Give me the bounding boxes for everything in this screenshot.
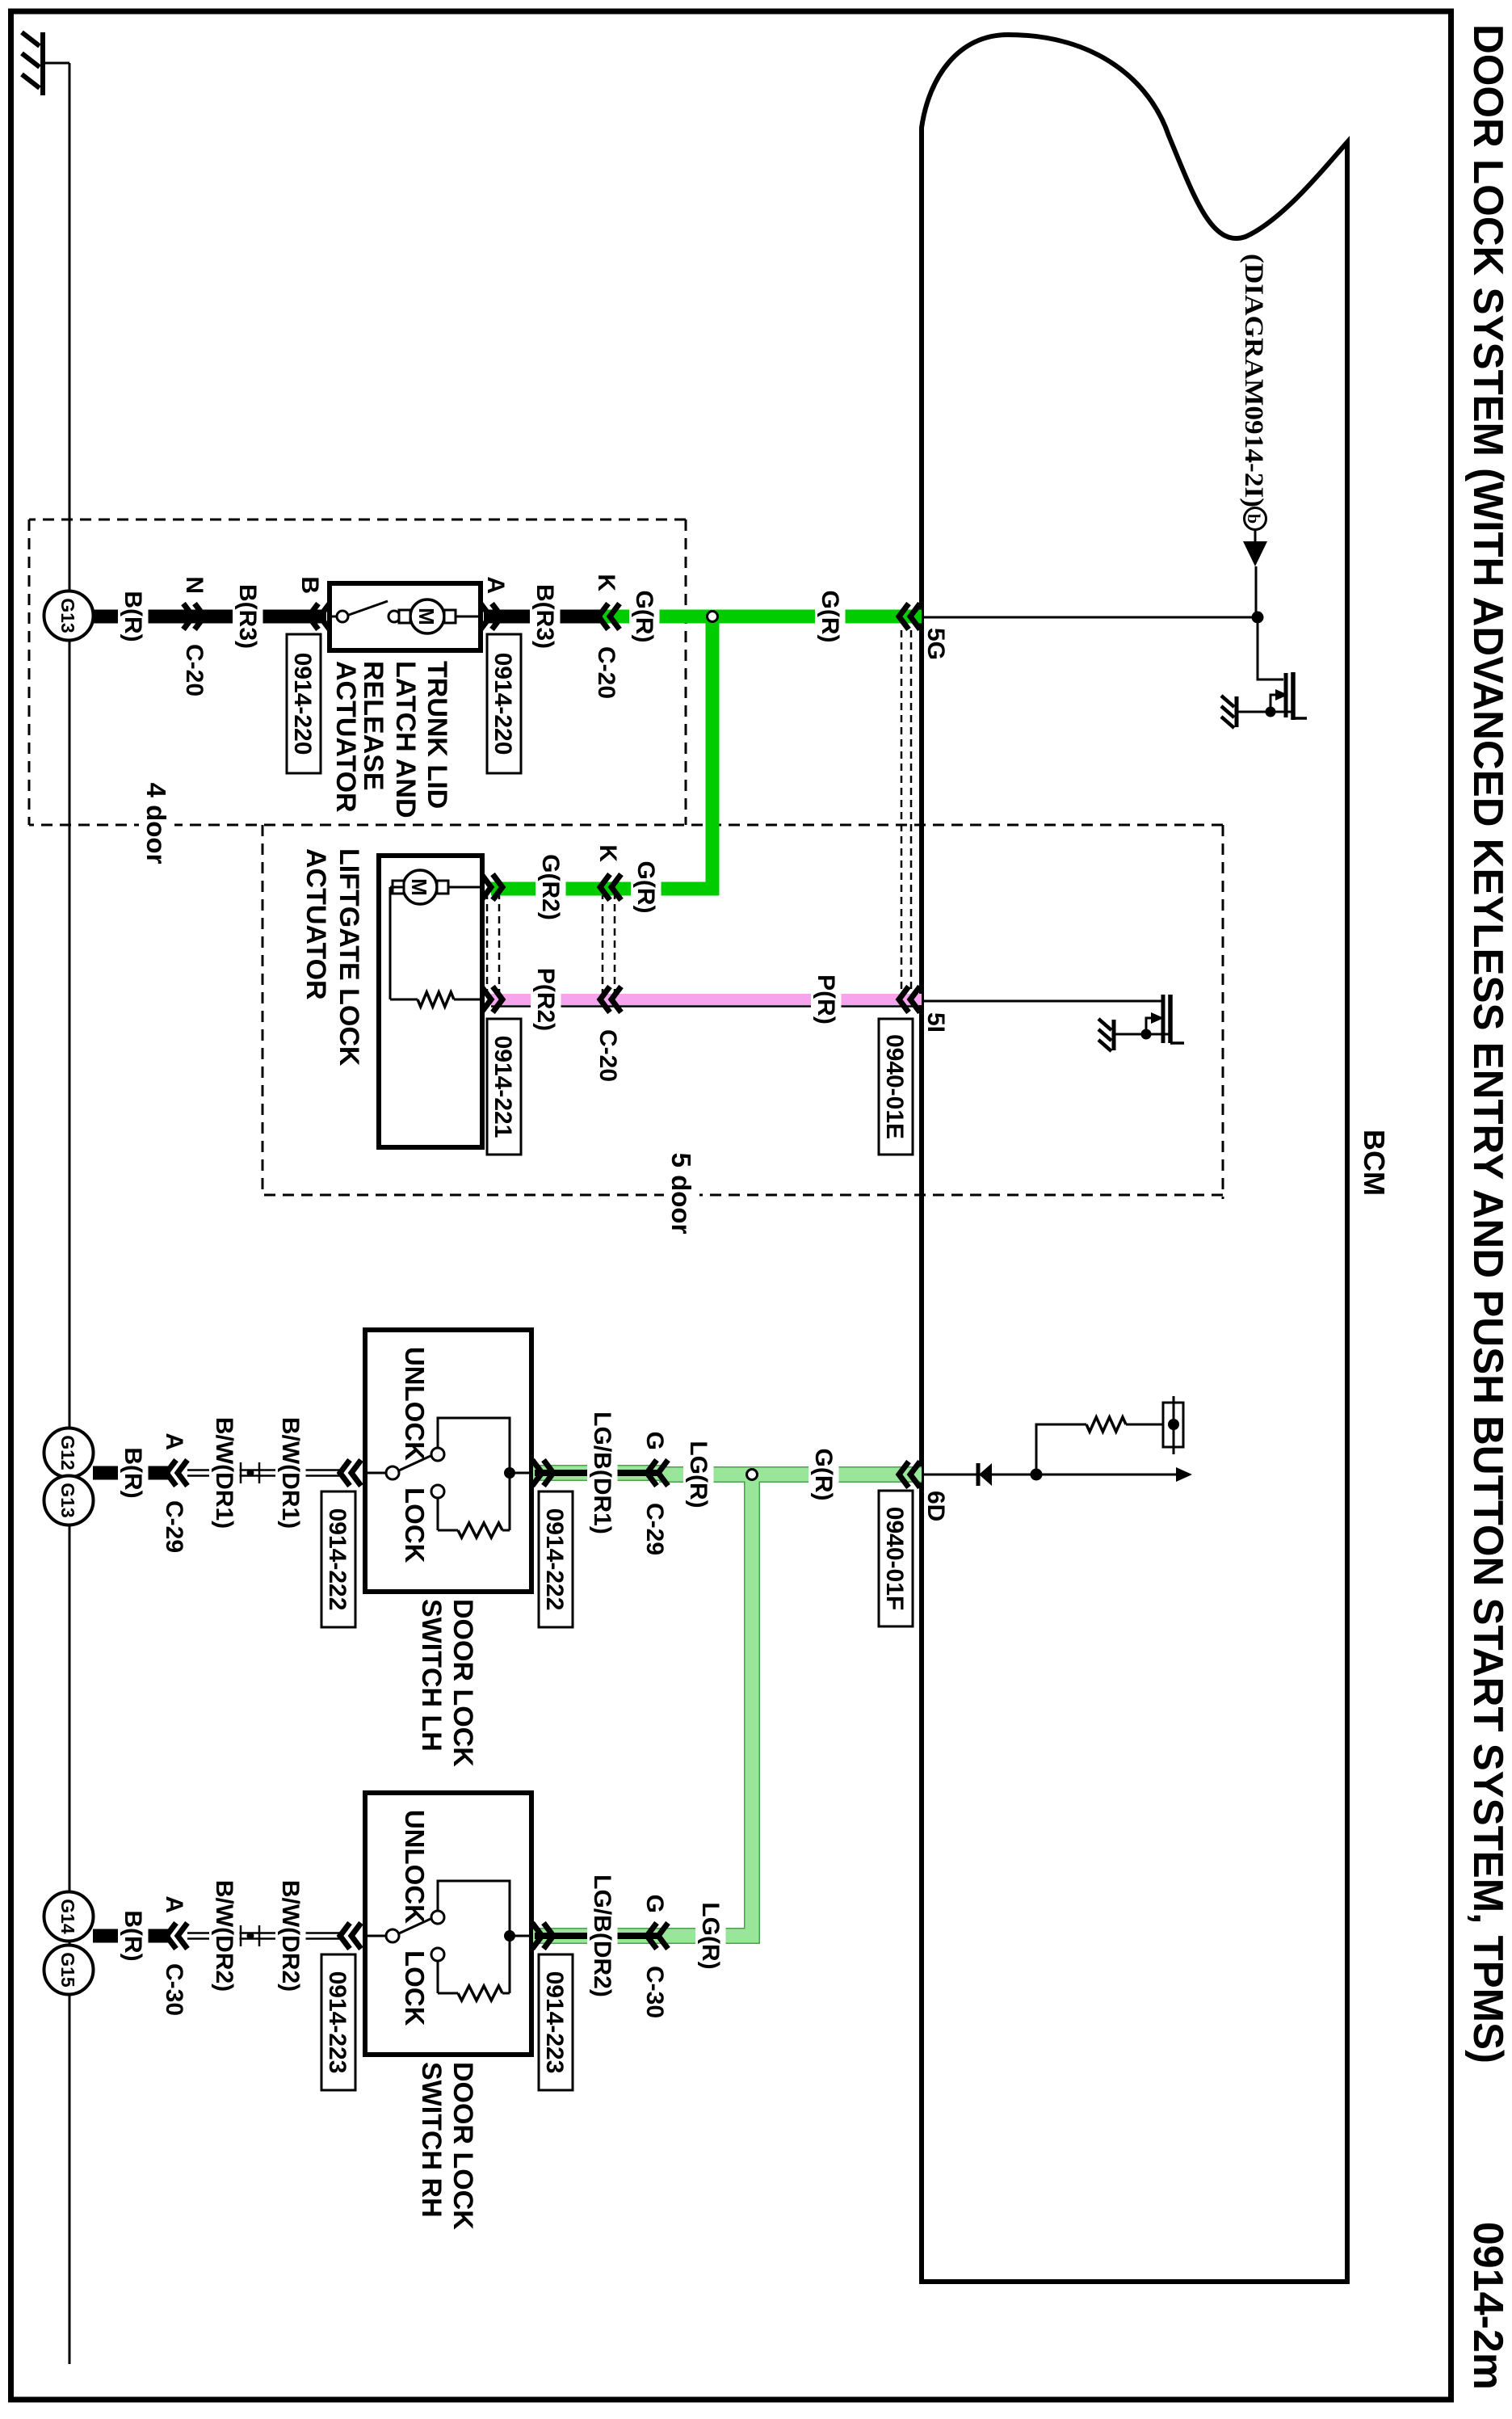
svg-text:0914-220: 0914-220 <box>489 653 516 755</box>
svg-text:G(R): G(R) <box>817 591 843 643</box>
svg-text:A: A <box>161 1895 187 1913</box>
svg-text:C-20: C-20 <box>181 644 208 696</box>
svg-text:0914-222: 0914-222 <box>541 1508 568 1611</box>
svg-text:6D: 6D <box>922 1491 949 1521</box>
svg-text:K: K <box>594 844 621 862</box>
svg-text:B(R): B(R) <box>120 591 146 642</box>
svg-text:DOOR LOCK: DOOR LOCK <box>447 2062 478 2230</box>
svg-text:B/W(DR2): B/W(DR2) <box>277 1880 304 1992</box>
svg-text:0914-222: 0914-222 <box>324 1508 351 1611</box>
svg-text:G(R2): G(R2) <box>537 854 564 920</box>
svg-text:LOCK: LOCK <box>400 1950 430 2026</box>
svg-text:SWITCH LH: SWITCH LH <box>416 1599 447 1752</box>
svg-text:(DIAGRAM0914-2I): (DIAGRAM0914-2I) <box>1239 254 1268 507</box>
svg-text:0914-221: 0914-221 <box>489 1036 516 1138</box>
svg-text:UNLOCK: UNLOCK <box>400 1810 430 1924</box>
svg-text:G: G <box>641 1432 668 1450</box>
svg-text:ACTUATOR: ACTUATOR <box>300 848 331 1000</box>
svg-text:LOCK: LOCK <box>400 1487 430 1563</box>
svg-text:LATCH AND: LATCH AND <box>390 661 421 818</box>
svg-text:N: N <box>181 576 208 594</box>
svg-text:G(R): G(R) <box>632 861 659 914</box>
svg-text:RELEASE: RELEASE <box>358 661 388 791</box>
svg-text:LG/B(DR2): LG/B(DR2) <box>589 1874 615 1997</box>
svg-text:G(R): G(R) <box>631 591 657 643</box>
svg-text:B/W(DR1): B/W(DR1) <box>211 1417 237 1529</box>
svg-text:C-30: C-30 <box>161 1963 187 2016</box>
svg-text:C-20: C-20 <box>593 646 619 699</box>
svg-text:B: B <box>296 576 323 594</box>
svg-text:C-20: C-20 <box>594 1029 621 1082</box>
svg-text:G: G <box>641 1895 668 1913</box>
svg-text:LG/B(DR1): LG/B(DR1) <box>589 1411 615 1534</box>
svg-text:B(R3): B(R3) <box>234 584 261 649</box>
svg-text:b: b <box>1244 514 1264 524</box>
svg-text:0914-223: 0914-223 <box>324 1971 351 2074</box>
svg-text:UNLOCK: UNLOCK <box>400 1347 430 1461</box>
svg-text:SWITCH RH: SWITCH RH <box>416 2062 447 2218</box>
svg-text:B(R3): B(R3) <box>531 584 558 649</box>
svg-text:5 door: 5 door <box>666 1153 696 1235</box>
svg-text:G13: G13 <box>57 1483 78 1517</box>
svg-text:A: A <box>482 576 509 594</box>
svg-text:BCM: BCM <box>1358 1130 1391 1196</box>
svg-text:0914-223: 0914-223 <box>541 1971 568 2074</box>
svg-text:M: M <box>407 878 431 896</box>
svg-text:G15: G15 <box>57 1952 78 1988</box>
svg-text:LG(R): LG(R) <box>685 1441 712 1508</box>
svg-text:C-30: C-30 <box>641 1966 668 2018</box>
svg-text:M: M <box>414 608 439 625</box>
svg-text:P(R2): P(R2) <box>532 968 559 1031</box>
svg-text:LIFTGATE LOCK: LIFTGATE LOCK <box>334 848 364 1066</box>
svg-text:G14: G14 <box>57 1899 78 1934</box>
svg-text:5G: 5G <box>922 628 949 660</box>
svg-text:DOOR LOCK SYSTEM (WITH ADVANCE: DOOR LOCK SYSTEM (WITH ADVANCED KEYLESS … <box>1464 24 1511 2064</box>
svg-text:C-29: C-29 <box>641 1503 668 1555</box>
svg-text:G12: G12 <box>57 1435 78 1470</box>
svg-text:B(R): B(R) <box>120 1910 146 1961</box>
svg-text:B(R): B(R) <box>120 1447 146 1498</box>
svg-text:TRUNK LID: TRUNK LID <box>422 661 452 809</box>
svg-text:C-29: C-29 <box>161 1500 187 1553</box>
svg-text:B/W(DR1): B/W(DR1) <box>277 1417 304 1529</box>
svg-text:LG(R): LG(R) <box>697 1902 724 1969</box>
svg-text:B/W(DR2): B/W(DR2) <box>211 1880 237 1992</box>
svg-text:0914-2m: 0914-2m <box>1464 2222 1511 2390</box>
svg-text:ACTUATOR: ACTUATOR <box>330 661 361 813</box>
svg-text:G13: G13 <box>57 598 78 633</box>
svg-text:DOOR LOCK: DOOR LOCK <box>447 1599 478 1767</box>
svg-text:P(R): P(R) <box>813 974 839 1024</box>
svg-text:5I: 5I <box>922 1012 949 1033</box>
svg-text:0940-01F: 0940-01F <box>881 1507 908 1610</box>
svg-text:4 door: 4 door <box>141 783 171 865</box>
svg-text:0940-01E: 0940-01E <box>881 1034 908 1139</box>
svg-text:0914-220: 0914-220 <box>289 653 316 755</box>
svg-text:A: A <box>161 1432 187 1450</box>
svg-text:K: K <box>593 574 619 591</box>
svg-text:G(R): G(R) <box>810 1449 837 1501</box>
